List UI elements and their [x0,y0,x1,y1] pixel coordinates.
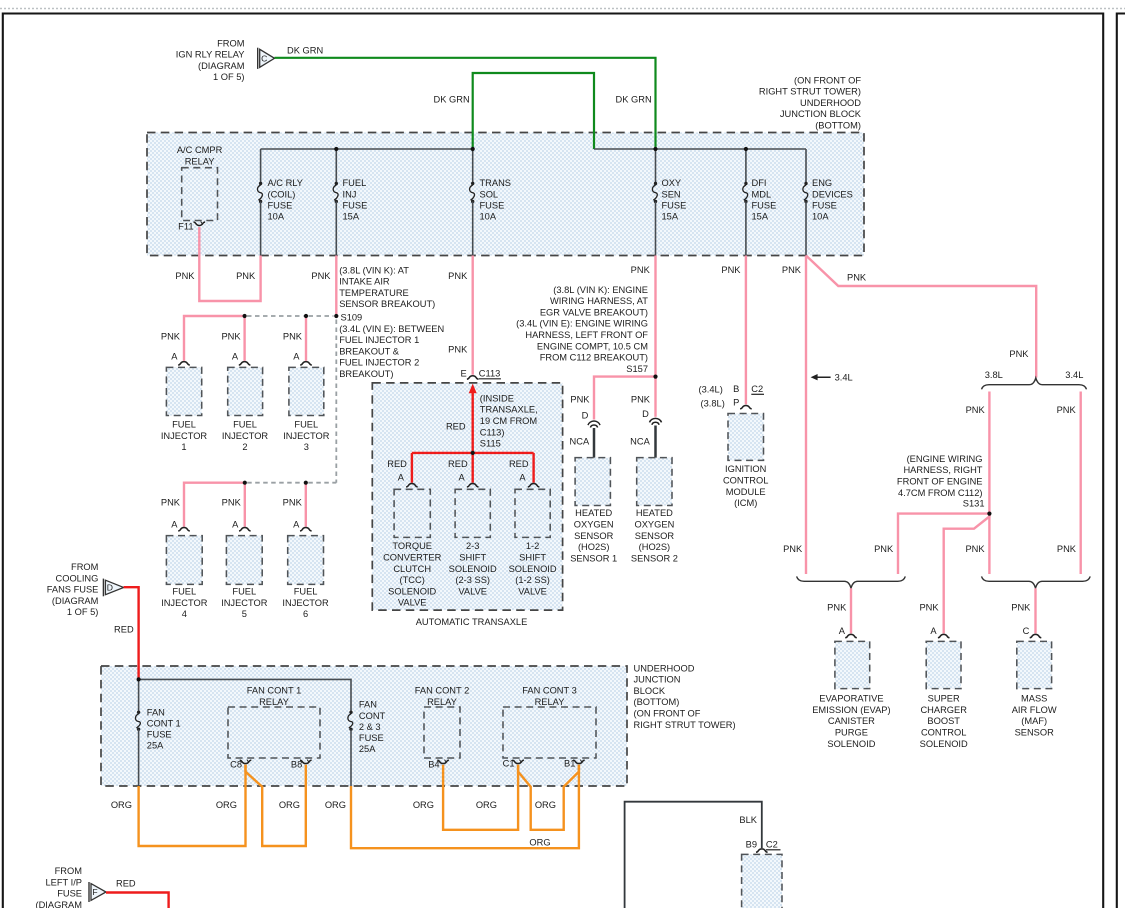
svg-text:C2: C2 [751,384,763,394]
component FUEL INJECTOR 3 [289,367,324,415]
svg-text:ORG: ORG [325,800,346,810]
svg-text:VALVE: VALVE [458,586,487,596]
svg-text:10A: 10A [480,212,497,222]
svg-text:C2: C2 [766,840,778,850]
svg-text:A: A [398,472,405,482]
svg-text:INTAKE AIR: INTAKE AIR [339,277,390,287]
svg-text:PNK: PNK [311,271,331,281]
svg-text:PNK: PNK [631,265,651,275]
svg-text:FUSE: FUSE [662,200,687,210]
svg-text:(COIL): (COIL) [268,189,296,199]
svg-text:A: A [839,626,846,636]
wire fuse feed drop x=655.5 [655,149,657,184]
svg-text:RED: RED [114,624,134,634]
svg-text:6: 6 [303,609,308,619]
wire PNK eng devices 3.4L run down to brace [805,256,807,575]
svg-text:CLUTCH: CLUTCH [393,564,431,574]
svg-text:VALVE: VALVE [518,586,547,596]
relay FAN CONT 2 RELAY [424,707,460,758]
wire fan cont 1 fuse output [138,729,140,786]
svg-text:FUSE: FUSE [359,733,384,743]
wire PNK S131 to super charger solenoid [944,514,990,633]
svg-text:ENG: ENG [812,178,832,188]
svg-text:P: P [733,397,739,407]
wire fuse feed drop x=260.6 [260,149,262,184]
svg-text:RIGHT STRUT TOWER): RIGHT STRUT TOWER) [634,720,736,730]
wire PNK 3.8L leg to S131 [988,392,990,575]
wire fuse feed drop x=745.9 [745,149,747,184]
component FUEL INJECTOR 5 [226,536,262,585]
wire PNK oxy sen fuse to S157 [654,256,656,377]
wire DK GRN main run [275,58,656,149]
wire PNK fuel injector 4 [184,483,245,527]
svg-text:25A: 25A [359,744,376,754]
svg-text:FUSE: FUSE [343,200,368,210]
svg-text:DK GRN: DK GRN [434,95,470,105]
svg-text:C: C [1023,626,1030,636]
svg-text:SENSOR 1: SENSOR 1 [570,553,617,563]
wire RED left i/p feed [106,893,169,908]
wire NCA HO2S sensor 1 [593,428,596,458]
svg-text:1-2: 1-2 [526,541,539,551]
pin B9 dome [756,849,768,852]
svg-text:FUSE: FUSE [57,889,82,899]
svg-text:BREAKOUT &: BREAKOUT & [339,346,400,356]
svg-text:INJ: INJ [343,189,357,199]
svg-text:PNK: PNK [783,544,803,554]
svg-text:AUTOMATIC TRANSAXLE: AUTOMATIC TRANSAXLE [416,617,528,627]
svg-text:JUNCTION BLOCK: JUNCTION BLOCK [780,109,862,119]
pin B4 [437,760,449,763]
wire PNK fuel injector 1 [184,316,245,361]
svg-text:ORG: ORG [476,800,497,810]
wire fuse output drop x=336.3 [335,202,337,256]
fuse FAN CONT 2 & 3 FUSE 25A [349,711,352,714]
component FUEL INJECTOR 6 [288,536,324,585]
svg-text:PNK: PNK [721,265,741,275]
off-page connector D from COOLING FANS FUSE [102,579,104,597]
svg-text:FUEL: FUEL [172,587,196,597]
wire BLK to PCM connector [625,802,762,908]
wire PNK S131 to left brace [898,514,989,574]
svg-text:F11: F11 [178,222,193,232]
svg-text:FUSE: FUSE [752,200,777,210]
pin dome ICM [740,405,752,408]
svg-text:FUEL: FUEL [172,420,196,430]
component PCM connector box [742,854,782,908]
svg-text:FAN CONT 2: FAN CONT 2 [415,686,470,696]
wire RED cooling fans feed [124,587,139,679]
svg-text:2-3: 2-3 [466,541,479,551]
splice S109 dashed links row 1 [247,315,304,317]
svg-text:10A: 10A [812,212,829,222]
svg-text:15A: 15A [343,212,360,222]
wire ORG fuse1 to C8 [139,765,246,846]
svg-text:(ON FRONT OF: (ON FRONT OF [634,709,701,719]
wire PNK fuel injector 3 [305,316,307,361]
svg-text:FUSE: FUSE [812,200,837,210]
svg-text:FUEL INJECTOR 1: FUEL INJECTOR 1 [339,335,419,345]
svg-text:B8: B8 [291,759,302,769]
pin B8 [300,760,312,763]
svg-text:ORG: ORG [535,800,556,810]
svg-text:JUNCTION: JUNCTION [634,675,681,685]
fuse FUEL INJ FUSE 15A [335,182,338,185]
svg-text:FAN: FAN [359,700,377,710]
svg-text:(ICM): (ICM) [734,498,757,508]
pin D inline connector HO2S 2 [650,418,662,422]
svg-text:(3.4L): (3.4L) [699,384,723,394]
brace evap pair [797,576,906,588]
svg-text:2 & 3: 2 & 3 [359,722,381,732]
svg-text:SUPER: SUPER [928,694,960,704]
svg-text:FAN: FAN [147,707,165,717]
svg-text:EMISSION (EVAP): EMISSION (EVAP) [812,705,890,715]
wire DK GRN jumper to TRANS SOL [473,73,594,149]
svg-text:(TCC): (TCC) [400,575,425,585]
wire PNK brace to MAF sensor [1034,588,1036,633]
wire PNK brace to EVAP solenoid [850,588,852,633]
svg-text:FUSE: FUSE [268,200,293,210]
bus wire right segment [594,148,806,150]
svg-text:C113: C113 [479,368,501,378]
svg-text:PNK: PNK [448,345,468,355]
svg-text:OXYGEN: OXYGEN [574,520,614,530]
fuse ENG DEVICES FUSE 10A [804,182,807,185]
svg-text:(HO2S): (HO2S) [639,542,671,552]
svg-text:(3.8L (VIN K): AT: (3.8L (VIN K): AT [339,265,409,275]
svg-text:CONTROL: CONTROL [723,476,768,486]
svg-text:FUEL: FUEL [343,178,367,188]
svg-text:RED: RED [116,879,136,889]
svg-text:COOLING: COOLING [56,573,99,583]
component HEATED OXYGEN SENSOR (HO2S) SENSOR 2 [637,458,672,506]
svg-text:PURGE: PURGE [835,728,868,738]
wire ORG C8 to B8 [246,765,306,846]
svg-text:FUSE: FUSE [147,730,172,740]
svg-text:1: 1 [181,442,186,452]
bus wire left segment [261,148,473,150]
svg-text:FUEL: FUEL [233,420,257,430]
svg-text:PNK: PNK [847,273,867,283]
pin A fuel injector 2 [239,362,251,365]
svg-text:FAN CONT 3: FAN CONT 3 [522,686,577,696]
component HEATED OXYGEN SENSOR (HO2S) SENSOR 1 [575,458,610,506]
svg-text:FUEL: FUEL [232,587,256,597]
svg-text:(3.4L (VIN E): ENGINE WIRING: (3.4L (VIN E): ENGINE WIRING [516,319,648,329]
svg-text:(3.4L (VIN E): BETWEEN: (3.4L (VIN E): BETWEEN [339,324,444,334]
pin A EVAP [845,634,857,637]
svg-text:SENSOR: SENSOR [635,531,675,541]
svg-text:S115: S115 [480,439,501,449]
svg-text:DK GRN: DK GRN [287,46,323,56]
svg-text:NCA: NCA [630,437,650,447]
svg-text:25A: 25A [147,741,164,751]
component SUPER CHARGER BOOST CONTROL SOLENOID [926,641,961,688]
svg-text:3.8L: 3.8L [985,370,1003,380]
off-page connector C from IGN RLY RELAY [257,48,259,69]
svg-text:A: A [171,520,178,530]
wire RED to TCC solenoid [411,453,413,483]
svg-text:FUSE: FUSE [480,200,505,210]
svg-text:(INSIDE: (INSIDE [480,393,514,403]
svg-text:FUEL: FUEL [294,420,318,430]
svg-text:(1-2 SS): (1-2 SS) [515,575,550,585]
wire PNK trans sol fuse to C113 [472,256,474,375]
svg-text:1 OF 5): 1 OF 5) [67,607,99,617]
svg-text:(BOTTOM): (BOTTOM) [634,697,680,707]
svg-text:HEATED: HEATED [636,508,673,518]
wire PNK S157 to HO2S sensor 1 [594,377,656,420]
svg-text:RELAY: RELAY [427,697,457,707]
svg-text:PNK: PNK [161,498,181,508]
node splice S115 [412,452,534,454]
svg-text:PNK: PNK [570,395,590,405]
svg-text:BOOST: BOOST [927,716,960,726]
component TORQUE CONVERTER CLUTCH (TCC) SOLENOID VALVE [394,489,430,537]
svg-text:WIRING HARNESS, AT: WIRING HARNESS, AT [550,296,648,306]
svg-text:2: 2 [242,442,247,452]
pin A fuel injector 3 [300,362,312,365]
svg-text:FRONT OF ENGINE: FRONT OF ENGINE [897,477,983,487]
svg-text:19 CM FROM: 19 CM FROM [480,416,537,426]
svg-text:CONT: CONT [359,711,386,721]
svg-text:C: C [261,53,267,63]
automatic transaxle box [372,383,562,610]
svg-text:NCA: NCA [570,437,590,447]
wire PNK S157 to HO2S sensor 2 [654,377,656,417]
svg-text:PNK: PNK [1009,349,1029,359]
svg-text:BLK: BLK [739,815,757,825]
svg-text:PNK: PNK [782,265,802,275]
svg-text:FUEL INJECTOR 2: FUEL INJECTOR 2 [339,358,419,368]
svg-text:CANISTER: CANISTER [828,716,875,726]
svg-text:RELAY: RELAY [185,156,215,166]
wire fuse output drop x=472.7 [472,202,474,256]
svg-text:(DIAGRAM: (DIAGRAM [52,596,99,606]
svg-text:RIGHT STRUT TOWER): RIGHT STRUT TOWER) [759,87,861,97]
wire PNK F11 to A/C RLY fuse U [199,227,260,301]
svg-text:IGN RLY RELAY: IGN RLY RELAY [176,50,245,60]
svg-text:CONVERTER: CONVERTER [383,553,441,563]
svg-text:MDL: MDL [752,189,772,199]
svg-text:SOLENOID: SOLENOID [827,739,875,749]
pin D inline connector HO2S 1 [588,421,600,425]
svg-text:ORG: ORG [413,800,434,810]
svg-text:F: F [92,887,97,897]
wire PNK 3.4L leg right [1079,392,1081,575]
splice dashed links row 2 [247,482,303,484]
fuse DFI MDL FUSE 15A [744,182,747,185]
wire fuse output drop x=655.5 [655,202,657,256]
wire fan bus [139,679,351,712]
svg-text:SOLENOID: SOLENOID [920,739,968,749]
svg-text:A: A [519,472,526,482]
svg-text:10A: 10A [268,212,285,222]
svg-text:15A: 15A [662,212,679,222]
svg-text:HEATED: HEATED [575,508,612,518]
splice S109 vertical dashed link [335,320,337,483]
svg-text:SENSOR BREAKOUT): SENSOR BREAKOUT) [339,299,435,309]
svg-text:PNK: PNK [175,271,195,281]
wire ORG fuse 2&3 to B1 [351,765,579,848]
svg-text:S157: S157 [626,364,648,374]
svg-text:PNK: PNK [827,603,847,613]
svg-text:FROM: FROM [55,866,82,876]
wire RED to 1-2 shift solenoid [532,453,534,483]
svg-text:PNK: PNK [966,405,986,415]
relay FAN CONT 1 RELAY [228,707,320,758]
svg-text:INJECTOR: INJECTOR [161,431,208,441]
svg-text:RED: RED [446,421,466,431]
svg-text:RED: RED [509,459,529,469]
pin A fuel injector 6 [300,528,312,531]
svg-text:TRANS: TRANS [480,178,512,188]
svg-text:15A: 15A [752,212,769,222]
svg-text:B: B [733,384,739,394]
relay FAN CONT 3 RELAY [503,707,596,758]
svg-text:OXYGEN: OXYGEN [635,520,675,530]
fuse FAN CONT 1 FUSE 25A [137,711,140,714]
svg-text:INJECTOR: INJECTOR [221,598,268,608]
svg-text:UNDERHOOD: UNDERHOOD [634,663,695,673]
wire fuse feed drop x=806 [805,149,807,184]
component FUEL INJECTOR 2 [228,367,263,415]
svg-text:ORG: ORG [216,800,237,810]
pin C MAF [1030,634,1042,637]
pin A fuel injector 1 [178,362,190,365]
svg-text:1 OF 5): 1 OF 5) [213,72,245,82]
svg-text:TORQUE: TORQUE [392,541,432,551]
wire RED to 2-3 shift solenoid [472,453,474,483]
wire NCA HO2S sensor 2 [654,426,657,459]
svg-text:SENSOR: SENSOR [574,531,614,541]
svg-text:TRANSAXLE,: TRANSAXLE, [480,405,538,415]
svg-text:(ENGINE WIRING: (ENGINE WIRING [907,454,983,464]
underhood junction block (bottom) box [147,133,864,256]
svg-text:S131: S131 [963,498,985,508]
pin B1 [573,760,585,763]
svg-text:PNK: PNK [222,498,242,508]
svg-text:(3.8L): (3.8L) [701,399,725,409]
svg-text:A: A [232,352,239,362]
component 2-3 SHIFT SOLENOID (2-3 SS) VALVE [455,489,490,537]
svg-text:C1: C1 [503,758,515,768]
pin E dome [467,376,479,379]
svg-text:PNK: PNK [874,544,894,554]
pin C8 [240,760,252,763]
svg-text:B4: B4 [428,759,439,769]
svg-text:A: A [930,626,937,636]
svg-text:INJECTOR: INJECTOR [282,598,329,608]
svg-text:(DIAGRAM: (DIAGRAM [36,900,83,908]
svg-text:PNK: PNK [236,271,256,281]
svg-text:PNK: PNK [161,331,181,341]
wire fan cont 2&3 fuse output [350,729,352,786]
junction dots [334,147,338,151]
svg-text:HARNESS, LEFT FRONT OF: HARNESS, LEFT FRONT OF [525,330,648,340]
svg-text:PNK: PNK [1011,603,1031,613]
svg-text:HARNESS, RIGHT: HARNESS, RIGHT [903,465,982,475]
svg-text:DEVICES: DEVICES [812,189,853,199]
wire ORG B4 to C1 [443,765,518,830]
svg-text:EGR VALVE BREAKOUT): EGR VALVE BREAKOUT) [540,307,648,317]
svg-text:ORG: ORG [279,800,300,810]
svg-text:C8: C8 [230,759,242,769]
svg-text:RELAY: RELAY [259,697,289,707]
svg-text:PNK: PNK [965,544,985,554]
svg-text:A: A [171,352,178,362]
page top dotted separator [0,8,1125,10]
svg-text:VALVE: VALVE [398,598,427,608]
svg-text:A: A [458,472,465,482]
svg-text:PNK: PNK [283,331,303,341]
svg-text:FROM C112 BREAKOUT): FROM C112 BREAKOUT) [540,353,648,363]
svg-text:SOLENOID: SOLENOID [388,586,436,596]
svg-text:A: A [293,520,300,530]
svg-text:PNK: PNK [283,498,303,508]
off-page connector F from LEFT I/P FUSE [88,882,90,902]
arrow 3.4L pointer [813,376,831,378]
svg-text:SOLENOID: SOLENOID [449,564,497,574]
wire PNK fuel injector 5 [244,483,246,527]
svg-text:C113): C113) [480,427,505,437]
svg-text:PNK: PNK [448,271,468,281]
svg-text:(DIAGRAM: (DIAGRAM [198,61,245,71]
relay A/C CMPR RELAY [182,168,218,221]
pin A 2-3 shift solenoid [467,484,479,487]
wire PNK dfi mdl fuse to ICM [745,256,747,405]
svg-text:FROM: FROM [217,38,244,48]
svg-text:3.4L: 3.4L [1065,370,1083,380]
svg-text:CONTROL: CONTROL [921,728,966,738]
svg-text:OXY: OXY [662,178,682,188]
svg-text:PNK: PNK [1057,544,1077,554]
component MASS AIR FLOW (MAF) SENSOR [1017,641,1052,688]
svg-text:DK GRN: DK GRN [616,95,652,105]
svg-text:B9: B9 [746,840,757,850]
component IGNITION CONTROL MODULE (ICM) [728,414,764,461]
svg-text:CONT 1: CONT 1 [147,718,181,728]
svg-text:IGNITION: IGNITION [725,464,766,474]
svg-text:FROM: FROM [71,562,98,572]
svg-text:4.7CM FROM C112): 4.7CM FROM C112) [898,488,983,498]
fuse TRANS SOL FUSE 10A [471,182,474,185]
svg-text:TEMPERATURE: TEMPERATURE [339,288,409,298]
svg-text:SENSOR: SENSOR [1015,728,1055,738]
svg-text:PNK: PNK [919,603,939,613]
pin A 1-2 shift solenoid [528,484,540,487]
svg-text:INJECTOR: INJECTOR [161,598,208,608]
brace maf pair [982,576,1091,588]
svg-text:ENGINE COMPT, 10.5 CM: ENGINE COMPT, 10.5 CM [537,341,648,351]
wire fuse feed drop x=336.3 [335,149,337,184]
fuse A/C RLY (COIL) FUSE 10A [259,182,262,185]
svg-text:EVAPORATIVE: EVAPORATIVE [819,694,883,704]
svg-text:FUEL: FUEL [294,587,318,597]
wire RED inside transaxle with arrow [469,384,477,394]
svg-text:A/C RLY: A/C RLY [268,178,303,188]
svg-text:SENSOR 2: SENSOR 2 [631,553,678,563]
svg-text:RED: RED [448,459,468,469]
svg-text:S109: S109 [341,312,363,322]
wire fuse output drop x=260.6 [260,202,262,256]
svg-text:B1: B1 [564,758,575,768]
svg-text:D: D [107,583,113,593]
svg-text:ORG: ORG [111,800,132,810]
wire PNK diagonal branch to 3.8L/3.4L brace [806,256,1036,378]
svg-text:SHIFT: SHIFT [459,553,486,563]
